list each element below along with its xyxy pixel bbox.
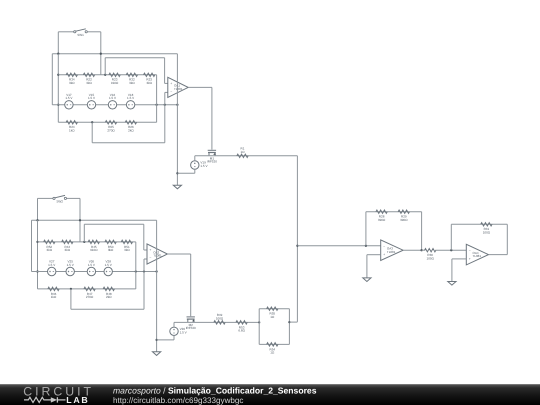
node vsrow-left B1 (57, 104, 59, 106)
voltage source V17 (65, 93, 74, 109)
wire row1 B2 (38, 241, 136, 243)
wire row1 B1 (58, 74, 156, 76)
svg-text:1.5 V: 1.5 V (109, 96, 117, 100)
resistor R23 (109, 73, 120, 85)
wire feedback vert B2 (156, 220, 158, 351)
svg-text:1.5 V: 1.5 V (88, 263, 96, 267)
wire OA4 out (489, 254, 508, 256)
wire row2 B2 (38, 288, 136, 290)
wire plus-path down B2 (143, 224, 145, 250)
svg-text:+: + (383, 253, 385, 257)
resistor R30 (425, 249, 436, 261)
svg-text:2kΩ: 2kΩ (106, 295, 112, 299)
svg-text:TL081: TL081 (387, 250, 396, 254)
wire stage4 fb top (451, 223, 507, 225)
svg-text:270Ω: 270Ω (86, 295, 94, 299)
wire V19 bottom (194, 169, 196, 173)
node vsrow-minus B2 (143, 270, 145, 272)
wire row2 B1 (58, 121, 156, 123)
svg-text:1.5 V: 1.5 V (200, 164, 208, 168)
wire source rail B2 (174, 321, 259, 323)
resistor R49 (214, 313, 225, 324)
node par-right (288, 321, 290, 323)
wire minus-path up B1 (164, 92, 166, 142)
ground stage4 (448, 282, 456, 286)
wire stage3 fb top (366, 211, 422, 213)
resistor R55 (267, 307, 278, 319)
resistor R24 (66, 121, 77, 133)
svg-text:1.5 V: 1.5 V (127, 96, 135, 100)
resistor R32 (126, 73, 137, 85)
node vsrow-right B1 (155, 104, 157, 106)
svg-text:1kΩ: 1kΩ (51, 295, 57, 299)
svg-text:+: + (469, 257, 471, 261)
footer bar (0, 384, 540, 405)
wire vs-row B2 (32, 271, 157, 273)
wire rail B1 (52, 53, 177, 55)
node vsrow-left B2 (36, 270, 38, 272)
svg-text:390Ω: 390Ω (400, 218, 408, 222)
svg-text:−: − (149, 256, 151, 260)
svg-text:3kΩ: 3kΩ (129, 81, 135, 85)
svg-text:marcosporto / Simulação_Codifi: marcosporto / Simulação_Codificador_2_Se… (113, 386, 317, 396)
resistor R26 (125, 121, 136, 133)
wire OA2 out down (190, 254, 192, 316)
svg-text:1.5 V: 1.5 V (67, 263, 75, 267)
svg-text:SW1: SW1 (77, 33, 84, 37)
svg-text:3kΩ: 3kΩ (108, 248, 114, 252)
svg-text:270Ω: 270Ω (107, 129, 115, 133)
resistor R48 (103, 287, 114, 299)
svg-text:TL081: TL081 (473, 254, 482, 258)
wire source rail B1 (195, 155, 298, 157)
node rail-right B2 (79, 219, 81, 221)
svg-text:3kΩ: 3kΩ (47, 248, 53, 252)
svg-text:−: − (469, 249, 471, 253)
svg-text:3kΩ: 3kΩ (65, 248, 71, 252)
node fb-gnd junction B1 (176, 172, 178, 174)
resistor R33 (144, 73, 155, 85)
node row1-mid B1 (104, 74, 106, 76)
wire OA1 out horiz (188, 86, 212, 88)
voltage source V20 (170, 327, 188, 336)
wire plus-path vert B2 (83, 224, 85, 242)
svg-text:3kΩ: 3kΩ (146, 81, 152, 85)
ground stage3 (363, 278, 371, 282)
wire SW1 right leg (100, 32, 102, 75)
voltage source V15 (87, 93, 96, 109)
node rail-left B2 (36, 219, 38, 221)
svg-text:1.5 V: 1.5 V (88, 96, 96, 100)
transistor M1 (207, 150, 217, 163)
resistor R31 (481, 223, 492, 235)
op-amp OA3 (381, 240, 403, 261)
wire V19 top (194, 156, 196, 161)
svg-text:+: + (170, 82, 172, 86)
wire minus stub B2 (144, 258, 147, 260)
wire minus-path up B2 (143, 259, 145, 309)
svg-text:1.5 V: 1.5 V (180, 331, 188, 335)
resistor R54 (267, 343, 278, 355)
wire rail B2 (32, 219, 157, 221)
wire vs-row B1 (52, 104, 177, 106)
wire V19 to gnd (177, 172, 194, 174)
wire V20 bottom (173, 336, 175, 340)
resistor R45 (88, 240, 99, 252)
transistor M2 (186, 317, 196, 330)
resistor R50 (105, 240, 116, 252)
wire OA3 to R30 (422, 249, 426, 251)
footer text line 2 (113, 396, 243, 405)
resistor R52 (44, 240, 55, 252)
svg-text:1.5 V: 1.5 V (48, 263, 56, 267)
wire OA3 out (403, 249, 422, 251)
svg-text:3kΩ: 3kΩ (69, 81, 75, 85)
voltage source V27 (48, 260, 57, 276)
wire SW1 top right (87, 31, 101, 33)
svg-text:100Ω: 100Ω (216, 317, 224, 321)
wire feedback vert B1 (176, 54, 178, 186)
node row1-left B1 (57, 74, 59, 76)
wire left bus B1 (57, 54, 59, 123)
node stage3 fb-in (365, 245, 367, 247)
node OA3 out (420, 249, 422, 251)
switch SW1 (74, 29, 88, 37)
node rail-left B1 (57, 53, 59, 55)
node stage4 fb-in (450, 249, 452, 251)
node row2-tap B2 (70, 288, 72, 290)
wire stage3 fb down (421, 212, 423, 251)
svg-text:100Ω: 100Ω (483, 231, 491, 235)
resistor R34 (66, 73, 77, 85)
svg-text:3kΩ: 3kΩ (124, 248, 130, 252)
svg-text:1.5 V: 1.5 V (105, 263, 113, 267)
wire stage4 plus stub (452, 258, 466, 260)
wire plus-path horiz B2 (84, 223, 144, 225)
svg-text:IRF530: IRF530 (186, 326, 196, 330)
wire SW1 top left (58, 31, 73, 33)
voltage source V25 (66, 260, 75, 276)
node fb-gnd junction B2 (155, 339, 157, 341)
svg-text:2kΩ: 2kΩ (128, 129, 134, 133)
wire plus-path vert B1 (104, 58, 106, 75)
resistor R1 (237, 147, 248, 158)
svg-text:100Ω: 100Ω (427, 256, 435, 260)
wire outer-left B1 (51, 54, 53, 105)
voltage source V18 (126, 93, 135, 109)
wire OA1 out down (211, 87, 213, 149)
wire right vert B2 (135, 242, 137, 289)
ground B1 (173, 185, 181, 189)
wire stage4 plus down (451, 259, 453, 282)
svg-text:3kΩ: 3kΩ (86, 81, 92, 85)
svg-text:1Ω: 1Ω (241, 150, 246, 154)
wire stage3 input (297, 245, 380, 247)
voltage source V19 (191, 161, 209, 170)
wire outer-left B2 (31, 220, 33, 271)
resistor R53 (236, 321, 247, 333)
node vsrow-fb B1 (176, 104, 178, 106)
wire right vert B1 (156, 75, 158, 123)
logo CIRCUIT LAB (23, 384, 94, 405)
wire stage3 plus down (366, 255, 368, 278)
svg-text:910Ω: 910Ω (111, 81, 119, 85)
footer text line 1 (113, 386, 317, 396)
wire stage3 fb up (365, 212, 367, 246)
node par-left (258, 321, 260, 323)
wire par bottom (259, 343, 289, 345)
svg-text:−: − (383, 244, 385, 248)
wire minus stub B1 (165, 91, 168, 93)
wire SW1 left leg (57, 32, 59, 54)
op-amp OA4 (466, 244, 488, 265)
wire par right vert (288, 309, 290, 345)
resistor R44 (62, 240, 73, 252)
node row1-left B2 (36, 241, 38, 243)
wire SW2 top right (67, 197, 81, 199)
node bus tap (296, 245, 298, 247)
wire plus-path down B1 (164, 58, 166, 84)
wire plus stub B1 (165, 82, 168, 84)
wire V20 top (173, 322, 175, 327)
wire minus-path horiz B1 (92, 142, 165, 144)
svg-text:+: + (149, 248, 151, 252)
node row2-tap B1 (91, 121, 93, 123)
wire plus-path horiz B1 (105, 57, 164, 59)
wire minus-path down B1 (91, 122, 93, 142)
wire SW2 right leg (79, 198, 81, 242)
svg-text:390Ω: 390Ω (378, 218, 386, 222)
op-amp OA2 (147, 244, 167, 264)
node row1-mid B2 (83, 241, 85, 243)
svg-text:6.8Ω: 6.8Ω (238, 329, 245, 333)
wire stage4 fb down (506, 224, 508, 254)
svg-text:TL081: TL081 (174, 87, 183, 91)
svg-text:−: − (170, 90, 172, 94)
wire minus-path horiz B2 (71, 308, 144, 310)
resistor R28 (376, 210, 387, 222)
switch SW2 (53, 195, 67, 203)
svg-text:1.5 V: 1.5 V (65, 96, 73, 100)
voltage source V26 (87, 260, 96, 276)
resistor R51 (121, 240, 132, 252)
wire left bus B2 (37, 220, 39, 289)
wire par left vert (258, 309, 260, 345)
wire minus-path down B2 (70, 289, 72, 309)
voltage source V16 (108, 93, 117, 109)
node vsrow-minus B1 (164, 104, 166, 106)
wire stage4 fb up (450, 224, 452, 250)
svg-text:910Ω: 910Ω (90, 248, 98, 252)
wire par top (259, 308, 289, 310)
resistor R22 (83, 73, 94, 85)
wire par to bus (289, 321, 297, 323)
voltage source V28 (104, 260, 113, 276)
node vsrow-right B2 (135, 270, 137, 272)
op-amp OA1 (168, 77, 188, 97)
resistor R29 (398, 210, 409, 222)
wire R30 to OA4 (435, 249, 466, 251)
svg-text:SW2: SW2 (56, 200, 63, 204)
wire OA2 out horiz (167, 253, 190, 255)
svg-text:LAB: LAB (66, 395, 89, 405)
resistor R46 (48, 287, 59, 299)
node vsrow-fb B2 (155, 270, 157, 272)
wire V20 to gnd (157, 339, 174, 341)
resistor R25 (105, 121, 116, 133)
node rail-right B1 (100, 53, 102, 55)
svg-text:1kΩ: 1kΩ (69, 129, 75, 133)
resistor R47 (84, 287, 95, 299)
svg-text:IRF530: IRF530 (207, 160, 217, 164)
wire SW2 top left (38, 197, 53, 199)
svg-text:http://circuitlab.com/c69g333g: http://circuitlab.com/c69g333gywbgc (113, 396, 243, 405)
wire stage3 plus stub (367, 254, 381, 256)
wire plus stub B2 (144, 249, 147, 251)
svg-text:TL081: TL081 (153, 254, 162, 258)
wire SW2 left leg (37, 198, 39, 220)
wire bus vertical (296, 156, 298, 322)
ground B2 (153, 352, 161, 356)
